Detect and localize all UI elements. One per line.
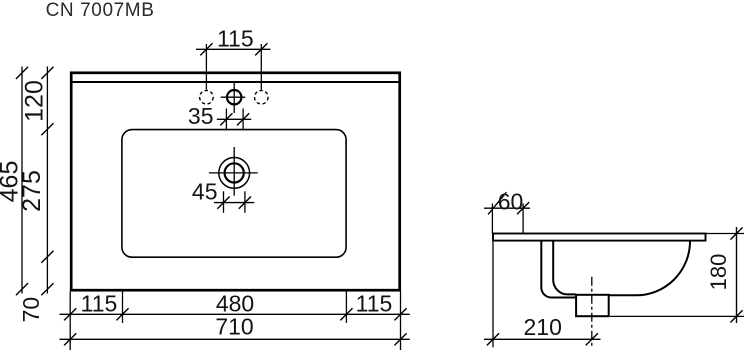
- svg-text:35: 35: [188, 103, 214, 129]
- svg-text:60: 60: [498, 189, 524, 215]
- svg-text:210: 210: [524, 314, 562, 340]
- svg-text:480: 480: [216, 290, 254, 316]
- svg-text:115: 115: [217, 25, 254, 51]
- svg-text:180: 180: [706, 254, 731, 291]
- svg-text:120: 120: [21, 80, 49, 122]
- svg-text:CN 7007MB: CN 7007MB: [46, 0, 155, 21]
- svg-text:275: 275: [18, 170, 46, 212]
- svg-text:45: 45: [192, 179, 218, 205]
- svg-text:115: 115: [81, 290, 118, 316]
- svg-text:70: 70: [18, 297, 44, 323]
- svg-text:710: 710: [215, 313, 253, 339]
- svg-text:115: 115: [356, 290, 393, 316]
